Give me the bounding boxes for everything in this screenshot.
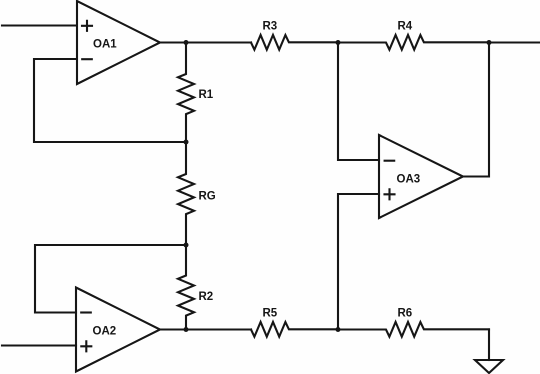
resistor R1 [178, 44, 214, 143]
wire R3/R4 node to OA3 inverting input [338, 44, 379, 161]
node R1/RG junction [184, 140, 189, 145]
node OA2 output junction [184, 327, 189, 332]
svg-text:R1: R1 [199, 89, 214, 101]
resistor R2 [178, 245, 213, 330]
svg-text:R4: R4 [398, 21, 413, 33]
node RG/R2 junction [184, 243, 189, 248]
node R5/R6 junction [336, 327, 341, 332]
wire OA1 non-inverting input [2, 24, 76, 26]
svg-text:OA3: OA3 [397, 173, 421, 185]
wire OA2 node to R5 [186, 328, 251, 330]
node OA1 output junction [184, 40, 189, 45]
node R3/R4 junction [336, 40, 341, 45]
resistor R5 [251, 308, 338, 337]
wire OA2 feedback (inverting input to RG/R2 node) [35, 245, 185, 313]
svg-text:R6: R6 [398, 308, 413, 320]
wire OA1 output [160, 41, 186, 43]
wire OA1 feedback (inverting input to R1/RG node) [34, 59, 185, 142]
op-amp OA1 [77, 1, 160, 84]
svg-text:R3: R3 [263, 21, 278, 33]
wire R5/R6 node to OA3 non-inverting input [338, 194, 379, 329]
wire R6 to ground [488, 330, 490, 361]
svg-text:OA1: OA1 [93, 38, 117, 50]
svg-text:R5: R5 [263, 308, 278, 320]
resistor R4 [338, 21, 489, 50]
resistor R6 [338, 308, 489, 337]
op-amp OA2 [76, 288, 160, 372]
node R4/output junction [487, 40, 492, 45]
ground [475, 360, 503, 373]
wire OA3 output feedback to R4 node [463, 43, 489, 177]
wire output to right edge [489, 41, 539, 43]
svg-text:R2: R2 [199, 291, 214, 303]
op-amp OA3 [379, 135, 463, 218]
resistor R3 [251, 21, 338, 50]
wire node to R3 [186, 41, 251, 43]
svg-text:RG: RG [199, 190, 216, 202]
svg-text:OA2: OA2 [93, 325, 117, 337]
wire OA2 output [160, 328, 186, 330]
wire OA2 non-inverting input [2, 344, 76, 346]
resistor RG [178, 142, 216, 245]
